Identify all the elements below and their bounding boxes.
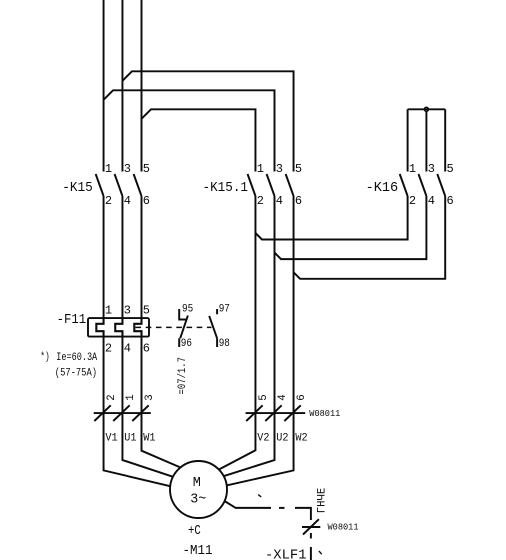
svg-text:3: 3	[428, 162, 435, 176]
wire branch L2 to K15.1 pin5	[122, 71, 293, 171]
tick mark above PE line	[258, 495, 261, 497]
overload relay F11 box	[88, 318, 149, 337]
wire L2 phase top	[121, 0, 123, 172]
svg-text:6: 6	[143, 194, 150, 208]
wire K16 pin1 top	[407, 109, 409, 171]
svg-text:6: 6	[295, 194, 302, 208]
wire K16 pin6 to node W2	[294, 196, 446, 279]
cable slash wire 5	[246, 405, 262, 421]
svg-text:1: 1	[105, 303, 112, 317]
wire PE dashed below cable mark	[310, 533, 312, 539]
svg-text:U2: U2	[276, 432, 288, 444]
svg-text:4: 4	[428, 194, 435, 208]
contactor K16 pole 1-2	[400, 174, 408, 196]
svg-text:M: M	[193, 476, 201, 491]
wire K16 pin5 top	[444, 109, 446, 171]
svg-text:-K16: -K16	[366, 181, 399, 196]
node star bar K16	[408, 108, 446, 110]
svg-text:W08011: W08011	[309, 408, 340, 419]
cable W08011 marker right group bar	[246, 412, 306, 414]
wire L1 phase top	[103, 0, 105, 172]
svg-text:V1: V1	[105, 432, 117, 444]
junction dot on K16 star bar	[424, 107, 428, 111]
svg-text:W08011: W08011	[328, 521, 359, 532]
svg-text:2: 2	[106, 394, 118, 400]
wire K15.1 pin2 down to motor V2	[219, 196, 256, 470]
svg-text:5: 5	[143, 162, 150, 176]
cable slash wire 2	[94, 405, 110, 421]
cable slash wire 3	[132, 405, 148, 421]
wire branch L1 to K15.1 pin3	[104, 90, 275, 171]
cable slash wire 6	[284, 405, 300, 421]
wire K16 pin4 to node U2	[275, 196, 427, 259]
svg-text:2: 2	[105, 194, 112, 208]
svg-text:3: 3	[276, 162, 283, 176]
svg-text:W2: W2	[295, 432, 307, 444]
svg-text:6: 6	[143, 341, 150, 355]
wire L3 phase top	[141, 0, 143, 172]
svg-text:2: 2	[409, 194, 416, 208]
contactor K15 pole 1-2	[96, 174, 104, 196]
wire F11 pin4 to motor U1	[122, 337, 173, 477]
svg-text:95: 95	[182, 303, 193, 315]
svg-text:3: 3	[144, 394, 156, 400]
cable slash wire 4	[265, 405, 281, 421]
contactor K15.1 pole 1-2	[248, 174, 256, 196]
svg-text:Ie=60.3A: Ie=60.3A	[56, 352, 97, 364]
svg-text:97: 97	[219, 303, 230, 315]
wire branch L3 to K15.1 pin1	[142, 109, 256, 171]
contactor K16 pole 5-6	[437, 174, 445, 196]
cable slash wire 1	[113, 405, 129, 421]
svg-text:(57-75A): (57-75A)	[55, 368, 97, 380]
svg-text:1: 1	[125, 394, 137, 400]
svg-text:4: 4	[124, 341, 131, 355]
svg-text:3: 3	[124, 162, 131, 176]
wire F11 pin2 to motor V1	[104, 337, 171, 487]
svg-text:96: 96	[181, 338, 192, 350]
svg-text:-M11: -M11	[183, 544, 213, 559]
contactor K16 pole 3-4	[419, 174, 427, 196]
svg-text:4: 4	[276, 194, 283, 208]
contactor K15 pole 3-4	[115, 174, 123, 196]
wire PE dash to corner and down	[295, 508, 311, 520]
svg-text:3: 3	[124, 303, 131, 317]
wire K16 pin3 top	[425, 112, 427, 172]
svg-text:-XLF1: -XLF1	[265, 549, 307, 560]
svg-text:5: 5	[258, 394, 270, 400]
svg-text:2: 2	[257, 194, 264, 208]
wire K15 pin4 to F11 pin3	[121, 196, 123, 318]
F11 heater element phase 2	[115, 318, 122, 337]
tick mark right of terminal XLF1	[319, 551, 322, 554]
wire K16 pin2 to node V2	[255, 196, 407, 240]
wire F11 pin6 to motor W1	[142, 337, 181, 468]
svg-text:5: 5	[295, 162, 302, 176]
wire K15.1 pin6 down to motor W2	[227, 196, 294, 485]
svg-text:-F11: -F11	[57, 313, 87, 328]
svg-text:2: 2	[105, 341, 112, 355]
F11 heater element phase 1	[96, 318, 103, 337]
svg-text:*): *)	[40, 352, 49, 364]
wire motor PE lead	[225, 501, 272, 508]
svg-text:-K15: -K15	[62, 181, 92, 196]
svg-text:-K15.1: -K15.1	[203, 181, 249, 196]
F11 NO contact 97-98	[216, 309, 218, 314]
wire K15.1 pin4 down to motor U2	[224, 196, 275, 476]
svg-text:4: 4	[277, 394, 289, 400]
svg-text:=07/1.7: =07/1.7	[177, 357, 189, 395]
svg-text:W1: W1	[143, 432, 155, 444]
svg-text:3~: 3~	[190, 493, 206, 508]
svg-text:6: 6	[296, 394, 308, 400]
svg-text:ГНЧЕ: ГНЧЕ	[316, 488, 328, 514]
cable marker left group bar	[94, 412, 151, 414]
F11 NC contact 95-96	[179, 309, 187, 320]
svg-text:6: 6	[447, 194, 454, 208]
contactor K15.1 pole 5-6	[286, 174, 294, 196]
svg-text:1: 1	[409, 162, 416, 176]
svg-text:+C: +C	[188, 524, 201, 539]
motor M11 circle	[170, 461, 227, 518]
svg-text:1: 1	[105, 162, 112, 176]
contactor K15.1 pole 3-4	[267, 174, 275, 196]
F11 heater element phase 3	[134, 318, 141, 337]
svg-text:98: 98	[219, 338, 230, 350]
wire PE dash-dot segment	[279, 507, 285, 509]
svg-text:5: 5	[447, 162, 454, 176]
svg-text:1: 1	[257, 162, 264, 176]
contactor K15 pole 5-6	[134, 174, 142, 196]
wire K15 pin6 to F11 pin5	[141, 196, 143, 318]
F11 trip linkage dashed line	[136, 326, 212, 328]
cable mark on PE wire	[302, 526, 320, 528]
svg-text:5: 5	[143, 303, 150, 317]
svg-text:U1: U1	[124, 432, 136, 444]
svg-text:V2: V2	[257, 432, 269, 444]
wire K15 pin2 to F11 pin1	[103, 196, 105, 318]
svg-text:4: 4	[124, 194, 131, 208]
